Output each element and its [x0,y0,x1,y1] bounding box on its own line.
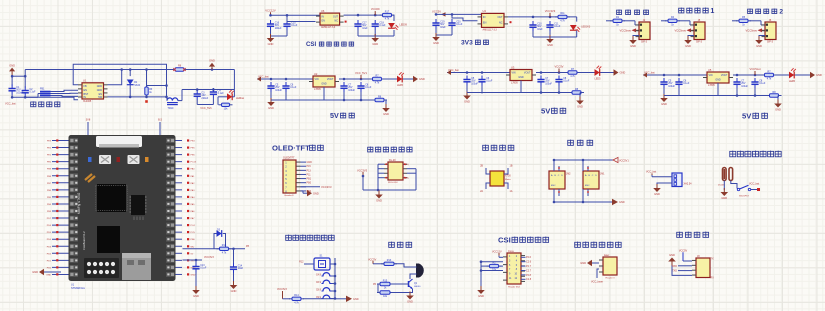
resistor R11 [555,16,558,18]
capacitor C14 [233,263,235,267]
svg-text:10uF: 10uF [537,28,543,31]
wire [344,14,394,16]
connector J1 OLED [283,160,296,193]
wire top stub A [87,122,89,135]
capacitor C3 [196,90,198,94]
svg-text:1k: 1k [149,91,152,94]
svg-text:Header 6X2: Header 6X2 [508,285,520,288]
wire [393,15,395,21]
svg-text:PA1: PA1 [191,175,196,178]
svg-text:R11: R11 [560,12,565,15]
svg-text:5V: 5V [191,253,194,255]
ground [270,34,272,38]
capacitor C18 [374,20,376,24]
wire [663,88,665,96]
svg-text:VCC09: VCC09 [371,7,380,11]
svg-text:0.1uF: 0.1uF [563,80,570,83]
resistor R1 [610,20,613,22]
key S5 [323,295,330,298]
svg-text:JM1: JM1 [600,173,605,176]
svg-text:GND: GND [46,274,51,276]
label buzzer [389,242,395,248]
wire EN bend [287,15,316,21]
wire right bus [407,168,416,170]
svg-text:C4.9: C4.9 [316,274,322,277]
svg-text:PB4: PB4 [47,204,52,206]
label encoder [568,140,574,146]
svg-text:2: 2 [779,9,783,16]
resistor R4 [665,20,668,22]
key S3 [323,280,330,283]
ferrite bead FB1 [40,92,51,96]
svg-text:0.1uF: 0.1uF [456,23,463,26]
svg-text:SIP-3: SIP-3 [767,40,774,43]
wire [270,92,272,100]
wire [271,14,321,16]
svg-text:5V: 5V [742,111,752,120]
wire [508,16,577,18]
svg-text:B.5: B.5 [158,119,162,122]
svg-text:0.1uF: 0.1uF [554,25,561,28]
svg-text:220uF: 220uF [201,97,208,100]
ground [549,35,551,39]
wire bottom rail [467,92,571,94]
connector CSI [507,253,521,284]
red marker [145,100,148,103]
svg-text:PE3: PE3 [47,141,52,143]
resistor Rgnd [767,95,770,97]
ground [758,36,760,40]
label servo-conn-2 [748,9,753,14]
svg-text:XT30: XT30 [505,175,511,178]
svg-text:TR10: TR10 [168,107,175,110]
svg-text:FB1: FB1 [40,87,45,90]
wire [661,20,667,22]
junction [435,13,438,16]
wire [183,259,197,261]
svg-text:U2: U2 [314,72,318,76]
wire [183,248,220,250]
svg-text:LED09: LED09 [400,24,408,27]
encoder JM2 [549,171,565,189]
board pin stubs and net labels [52,140,69,142]
svg-text:PD4: PD4 [47,239,52,241]
svg-text:J8: J8 [697,255,700,258]
svg-text:IN: IN [84,96,87,99]
ground right [307,190,312,196]
wire [270,30,272,36]
ground [374,34,376,38]
svg-text:WU: WU [191,246,195,248]
svg-text:GND: GND [721,196,727,200]
svg-text:GND: GND [191,274,196,276]
svg-text:C8.9: C8.9 [316,289,322,292]
ground [270,98,272,102]
svg-text:PA7: PA7 [191,217,196,220]
junction [357,14,360,17]
capacitor Cout1 [540,76,542,80]
svg-text:PD5: PD5 [47,232,52,234]
svg-text:ENC: ENC [551,185,556,187]
svg-text:VCC3V3: VCC3V3 [321,185,332,189]
wire [606,20,612,22]
svg-text:WLS-24U: WLS-24U [388,182,398,184]
svg-text:GND: GND [97,85,103,88]
board button left [99,155,111,164]
svg-text:AMS1117-3.3: AMS1117-3.3 [321,26,336,29]
junction [269,14,272,17]
capacitor C10 [532,21,534,25]
wire [129,70,131,77]
svg-text:GND: GND [32,270,38,274]
push button S1 [314,258,330,270]
svg-text:PB0: PB0 [191,239,196,241]
svg-text:10k: 10k [383,295,388,298]
svg-text:100uF: 100uF [275,27,282,30]
svg-text:P5: P5 [406,177,410,180]
resistor Rled [565,72,568,74]
wire [229,248,246,250]
board USB bottom [122,253,151,280]
resistor Rled [370,78,373,80]
wire [435,29,437,35]
svg-text:C6.9: C6.9 [316,281,322,284]
svg-text:0.1uF: 0.1uF [200,267,207,270]
svg-text:VCC12V: VCC12V [265,8,276,12]
svg-text:OUT: OUT [333,15,339,18]
board button right [128,155,140,164]
wire [777,95,780,97]
svg-text:0.1uF: 0.1uF [486,80,493,83]
LED D9 [388,23,398,30]
svg-text:GND: GND [669,253,675,257]
svg-text:0.1uF: 0.1uF [759,82,766,85]
svg-text:3V3: 3V3 [191,260,196,262]
svg-text:VIN: VIN [512,72,516,75]
wire bottom rail [271,99,374,101]
regulator U6 [320,13,340,25]
svg-text:LEDbat: LEDbat [236,97,244,100]
svg-text:1k: 1k [742,23,745,26]
wire [384,99,386,101]
svg-text:P13: P13 [307,169,312,172]
svg-text:R18: R18 [222,244,227,247]
svg-text:PD3: PD3 [47,246,52,248]
ground [632,36,634,40]
capacitor C1 [11,85,13,89]
resistor R16 [487,265,490,267]
svg-text:VCC5nav: VCC5nav [745,28,757,32]
wire [195,273,197,287]
svg-text:VIN: VIN [709,74,713,77]
board USB-C top connector [96,136,142,147]
svg-text:EN: EN [483,21,487,24]
svg-text:CSI: CSI [498,235,511,244]
svg-text:OUT: OUT [497,16,503,19]
svg-text:GND: GND [685,44,691,48]
svg-text:L7805: L7805 [708,84,715,87]
svg-text:GND: GND [383,112,389,116]
svg-text:VOUT: VOUT [327,78,334,81]
label dip-switch-key [286,235,292,241]
svg-text:GND: GND [756,44,762,48]
svg-text:P2.6: P2.6 [526,256,532,259]
wire [11,95,13,98]
svg-text:VCC5V1: VCC5V1 [619,159,629,162]
svg-text:10uF: 10uF [362,27,368,30]
wire [723,181,725,191]
svg-text:0.1uF: 0.1uF [218,92,225,95]
svg-text:OLED·TFT: OLED·TFT [272,143,310,152]
wire [304,263,314,265]
svg-text:GND: GND [268,42,274,46]
svg-text:4.7k: 4.7k [560,19,565,22]
wire [301,190,304,192]
svg-text:GND: GND [268,106,274,110]
svg-text:PC13: PC13 [191,162,197,164]
wire [688,36,694,39]
svg-text:VCC3V3: VCC3V3 [357,168,368,172]
ground [378,191,380,195]
svg-text:LED5: LED5 [595,78,602,81]
svg-text:VCC_5V1: VCC_5V1 [355,71,367,75]
svg-text:PD2: PD2 [47,253,52,255]
regulator U5 [707,72,729,83]
ground right [612,199,618,205]
connector XH2.54 [672,173,682,187]
svg-text:GND: GND [775,108,781,112]
svg-text:VCC3V3: VCC3V3 [545,9,556,13]
wire leads [486,168,490,174]
wire [339,78,413,80]
label servo-power [31,101,36,106]
svg-text:0.1uF: 0.1uF [29,91,36,94]
svg-text:2B: 2B [480,165,483,168]
svg-text:P2.8: P2.8 [526,274,532,277]
svg-text:PB1: PB1 [307,178,312,181]
wire [12,75,25,77]
key S4 [323,288,330,291]
svg-text:PC5: PC5 [191,232,196,234]
svg-text:VCC3V3: VCC3V3 [204,256,214,259]
svg-text:4.7k: 4.7k [570,75,575,78]
svg-text:0.1uF: 0.1uF [290,86,297,89]
svg-text:100uF: 100uF [471,82,478,85]
svg-text:U6: U6 [321,9,325,13]
capacitor Cout1 [343,82,345,86]
capacitor Cout2 [558,76,560,80]
LED power [397,72,404,82]
svg-text:PB9: PB9 [47,169,52,171]
svg-text:C2.7: C2.7 [526,269,532,272]
diode D3 [217,230,222,237]
wire [597,269,599,278]
svg-text:GND: GND [231,289,237,293]
capacitor C4 [212,88,214,92]
svg-text:1: 1 [710,7,714,15]
svg-text:3V3: 3V3 [461,40,473,47]
svg-text:Header 3: Header 3 [606,276,616,279]
svg-text:1B: 1B [510,165,513,168]
wire top rail [554,159,613,161]
svg-text:10k: 10k [224,107,229,110]
wire [633,36,639,39]
svg-text:NC: NC [499,21,503,24]
capacitor C17 [357,20,359,24]
wire [283,298,291,300]
svg-text:GND: GND [433,41,439,45]
svg-text:4.7k: 4.7k [767,78,772,81]
svg-text:PB6: PB6 [47,190,52,192]
svg-text:VCC_bat: VCC_bat [646,171,656,174]
svg-text:GND: GND [193,294,199,298]
svg-text:100uF: 100uF [275,89,282,92]
wire [233,273,235,283]
svg-text:0.1uF: 0.1uF [683,82,690,85]
svg-text:1k: 1k [671,23,674,26]
svg-text:0.1uF: 0.1uF [291,24,298,27]
ground [435,33,437,37]
wire [108,70,122,85]
junction [343,78,346,81]
connector J5 [694,22,705,40]
board MCU chip [97,184,126,212]
svg-text:GND: GND [321,83,327,86]
ground [233,281,235,285]
wire left bus [378,163,384,165]
svg-text:STM32F4xx: STM32F4xx [71,286,86,290]
board led blue [88,157,92,162]
svg-text:5V: 5V [330,112,339,120]
connector laser [603,257,617,275]
wire [378,284,380,293]
connector serial [696,258,710,278]
svg-text:PE2: PE2 [47,148,52,150]
svg-text:LED3V3: LED3V3 [581,26,591,29]
wire bottom [362,176,364,190]
svg-text:PA4: PA4 [191,196,196,199]
svg-text:GND: GND [478,294,484,298]
svg-text:U4: U4 [483,9,487,13]
diode D1 [127,80,134,85]
svg-text:GND: GND [307,161,313,164]
resistor R16b [377,292,380,294]
svg-text:4.7k: 4.7k [375,82,380,85]
svg-text:Q1: Q1 [414,283,418,285]
junction [663,74,666,77]
wire top rail [257,78,313,80]
svg-text:PE4: PE4 [191,141,196,143]
wire diode loop [214,234,217,249]
svg-text:10uF: 10uF [238,267,244,270]
wire [196,100,198,105]
ground wire left [44,271,61,273]
svg-text:VCC_5V1: VCC_5V1 [200,106,212,110]
svg-text:GND: GND [715,79,721,82]
svg-text:0.1uF: 0.1uF [379,24,386,27]
resistor R18 [217,248,220,250]
capacitor Cin2 [678,78,680,82]
wire gnd rail [24,70,26,77]
svg-text:R17: R17 [385,10,390,13]
buzzer LS1 [416,264,424,278]
power jack DC1 [723,168,733,181]
wire bottom rail [664,95,768,97]
svg-text:R15: R15 [383,279,388,282]
svg-text:GND: GND [547,43,553,47]
label serial-conn [677,232,683,238]
regulator U1 XL4005 [82,83,104,99]
resistor R17 [380,14,383,16]
svg-text:PA0: PA0 [191,168,196,171]
resistor R3 [146,84,148,87]
ground [663,94,665,98]
svg-text:5V: 5V [541,106,551,115]
svg-text:4.7k: 4.7k [385,18,390,21]
resistor R15 base [377,283,380,285]
key S2 [323,273,330,276]
svg-text:PE1: PE1 [47,155,52,157]
svg-text:C2.6: C2.6 [526,261,532,264]
no-ERC marker [510,21,512,23]
encoder JM1 [583,171,599,189]
svg-text:GND: GND [407,300,413,304]
ground right [346,296,352,302]
svg-text:R8: R8 [178,65,182,68]
svg-text:VCC12V: VCC12V [492,250,502,253]
ground [385,104,387,108]
resistor Rgnd [372,99,375,101]
resistor Rled [762,74,765,76]
svg-text:1k: 1k [384,287,387,290]
svg-text:laser: laser [604,254,609,257]
svg-text:3V8: 3V8 [86,119,91,122]
svg-text:XH2.54: XH2.54 [684,183,693,186]
transistor Q1 [408,281,410,287]
wire left bus [498,256,500,257]
svg-text:P8: P8 [246,245,250,248]
resistor R8 inline [175,68,184,71]
ground [777,100,779,104]
svg-text:0.1uF: 0.1uF [365,86,372,89]
inductor L1 [167,98,178,105]
svg-text:1k: 1k [616,23,619,26]
svg-text:100uF: 100uF [668,85,675,88]
svg-text:P6: P6 [373,283,377,286]
LED D10 [570,25,580,32]
wire [732,20,738,22]
junction [270,78,273,81]
svg-text:AMS1117-3.3: AMS1117-3.3 [483,28,498,31]
svg-text:PB5: PB5 [47,197,52,199]
svg-text:JM2: JM2 [566,173,571,176]
svg-text:PB3: PB3 [47,211,52,213]
svg-text:4.7k: 4.7k [222,251,227,254]
label wireless-serial [368,147,373,152]
board pad grid [84,258,119,278]
svg-text:TX: TX [711,258,714,261]
wire into U1 [51,90,79,91]
svg-text:LED5: LED5 [397,84,404,87]
module U7 [388,162,403,180]
ground [723,188,725,192]
wire [651,175,653,177]
svg-text:GND: GND [816,73,822,77]
board inductor marks [85,174,95,182]
svg-text:GND: GND [376,199,382,203]
wire [576,17,578,22]
svg-text:SS34: SS34 [134,84,141,87]
